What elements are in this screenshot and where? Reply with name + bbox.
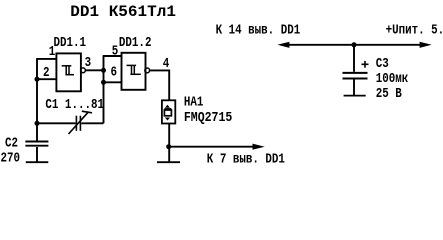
junction dot pin6 node <box>101 80 106 85</box>
wire: pin 5 <box>103 55 122 57</box>
node: bottom stub bar under HA1 <box>157 161 180 163</box>
wire: middle vertical node <box>103 56 105 123</box>
svg-text:25 В: 25 В <box>376 86 403 101</box>
label +Uпит. 5...15 В <box>386 23 443 38</box>
svg-text:1: 1 <box>49 44 56 59</box>
node: bottom stub bar under C2 <box>26 161 49 163</box>
capacitor C1 plates (trimmer) <box>75 116 77 131</box>
label DD1.1 <box>54 35 87 50</box>
wire: top supply rail <box>288 44 421 46</box>
capacitor C2 plates <box>25 141 48 143</box>
wire: HA1 bottom <box>168 123 170 162</box>
wire: C2 bottom lead <box>36 147 38 162</box>
junction dot HA1 bottom node <box>166 144 171 149</box>
wire: C3 top lead <box>353 45 355 72</box>
capacitor C1 adjuster arrow <box>69 112 89 134</box>
schmitt hysteresis symbol DD1.2 <box>127 64 137 66</box>
pin 4 <box>163 56 170 71</box>
pin 3 <box>85 55 92 70</box>
svg-text:К 14 выв. DD1: К 14 выв. DD1 <box>216 23 301 38</box>
capacitor C3 plates <box>343 72 368 74</box>
label DD1.2 <box>119 35 152 50</box>
svg-text:DD1.1: DD1.1 <box>54 35 87 50</box>
junction dot pin2 node <box>35 77 40 82</box>
arrowhead: rail left to pin 14 <box>277 42 289 48</box>
svg-text:3: 3 <box>85 55 92 70</box>
junction dot supply rail node <box>352 42 357 47</box>
svg-text:270: 270 <box>1 150 21 165</box>
svg-text:2: 2 <box>43 65 50 80</box>
wire: pin 1 <box>36 58 56 60</box>
wire: pin 2 <box>36 78 56 80</box>
arrowhead: to pin 7 <box>253 144 265 150</box>
svg-text:К 7 выв. DD1: К 7 выв. DD1 <box>207 152 285 167</box>
svg-text:FMQ2715: FMQ2715 <box>184 110 232 125</box>
junction dot output3 node <box>101 68 106 73</box>
wire: output pin 3 <box>86 69 104 71</box>
svg-text:C3: C3 <box>376 56 389 71</box>
svg-text:+Uпит. 5...15 В: +Uпит. 5...15 В <box>386 23 443 38</box>
junction dot C1/C2 node <box>35 121 40 126</box>
label 25 В <box>376 86 403 101</box>
wire: C1 horizontal <box>37 122 76 124</box>
wire: bottom output to arrow <box>169 146 254 148</box>
label FMQ2715 <box>184 110 232 125</box>
wire: C2 top lead <box>36 123 38 140</box>
logic gate DD1.1 box <box>56 53 81 91</box>
pin 1 <box>49 44 56 59</box>
wire: DD1.1 input vertical <box>36 59 38 123</box>
pin 2 <box>43 65 50 80</box>
polarity plus of C3 <box>362 63 369 65</box>
wire: output pin 4 to HA1 <box>150 70 169 100</box>
label К 14 выв. DD1 <box>216 23 301 38</box>
svg-text:HA1: HA1 <box>184 95 204 110</box>
svg-text:5: 5 <box>112 44 119 59</box>
schmitt hysteresis symbol DD1.1 <box>62 65 72 67</box>
pin 5 <box>112 44 119 59</box>
label HA1 <box>184 95 204 110</box>
svg-text:C2: C2 <box>5 136 18 151</box>
label 100мк <box>376 71 409 86</box>
buzzer HA1 body <box>162 100 175 123</box>
inversion bubble DD1.1 output <box>81 68 86 73</box>
label C1 value <box>45 97 104 112</box>
pin 6 <box>111 64 118 79</box>
svg-text:DD1.2: DD1.2 <box>119 35 152 50</box>
svg-text:4: 4 <box>163 56 170 71</box>
label 270 <box>1 150 21 165</box>
label К 7 выв. DD1 <box>207 152 285 167</box>
logic gate DD1.2 box <box>122 53 146 90</box>
svg-text:6: 6 <box>111 64 118 79</box>
svg-text:C1 1...81: C1 1...81 <box>45 97 104 112</box>
inversion bubble DD1.2 output <box>145 68 150 73</box>
label C2 <box>5 136 18 151</box>
svg-text:DD1 К561Тл1: DD1 К561Тл1 <box>70 3 176 21</box>
wire: pin 6 <box>103 81 122 83</box>
buzzer HA1 inner symbol <box>164 105 171 121</box>
wire: C3 bottom lead <box>353 80 355 96</box>
arrowhead: rail right to +U <box>420 42 432 48</box>
node: stub bar under C3 <box>344 95 366 97</box>
label C3 <box>376 56 389 71</box>
svg-text:100мк: 100мк <box>376 71 409 86</box>
